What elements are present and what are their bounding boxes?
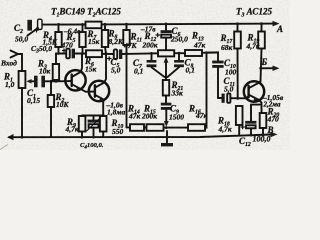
resistor R8 [102,23,108,54]
resistor R5 [79,23,85,54]
wire feedback riser left [126,45,128,127]
capacitor C11 [218,94,246,103]
wire output B arrow [259,66,279,72]
capacitor C5 [108,49,123,60]
resistor R7 in rail [86,22,102,29]
resistor R16 [188,124,205,131]
capacitor C4 [87,116,101,139]
resistor R18 [236,106,243,136]
capacitor C1 [34,76,52,88]
wire bottom common rail [7,132,278,141]
capacitor C7 [147,53,165,77]
resistor R14 [130,124,144,131]
wire top supply rail [43,21,280,27]
resistor R20 [260,113,267,136]
capacitor C9 [161,103,172,127]
input arrow [11,51,23,72]
capacitor C6 [156,23,172,51]
resistor R3 [53,54,59,83]
wire T3 emitter [258,100,261,113]
potentiometer R1 [19,71,34,139]
wire bottom feedback [127,53,207,129]
potentiometer R15 [147,124,164,131]
resistor R11 [123,23,129,45]
resistor R13 [185,50,202,56]
ground [161,131,173,146]
wire treble riser / C10 C11 chain [205,51,218,60]
capacitor C3 [63,49,76,59]
wire mid horizontal [56,52,218,56]
resistor R2 [48,81,54,137]
resistor R9 [79,116,86,139]
capacitor C2 [27,19,42,35]
wire corner mark bottom-left [0,145,8,150]
wire T2 emitter [82,100,105,117]
wire T1 emitter to T2 base [81,89,89,92]
resistor R10 [100,116,107,137]
capacitor C10 [212,61,223,98]
resistor R19 [258,22,265,81]
resistor R17 [234,22,241,99]
wire emitter branch to C12 [251,105,262,121]
potentiometer R12 [158,50,174,76]
transistor T3 [244,81,264,101]
transistor T2 [89,54,109,101]
resistor R4 [55,23,61,54]
wire T1 base [50,80,66,83]
resistor R21 [163,76,169,103]
capacitor C8 [168,53,184,77]
resistor R6 [86,50,102,57]
capacitor C12 [241,121,256,137]
transistor T1 [65,54,85,91]
